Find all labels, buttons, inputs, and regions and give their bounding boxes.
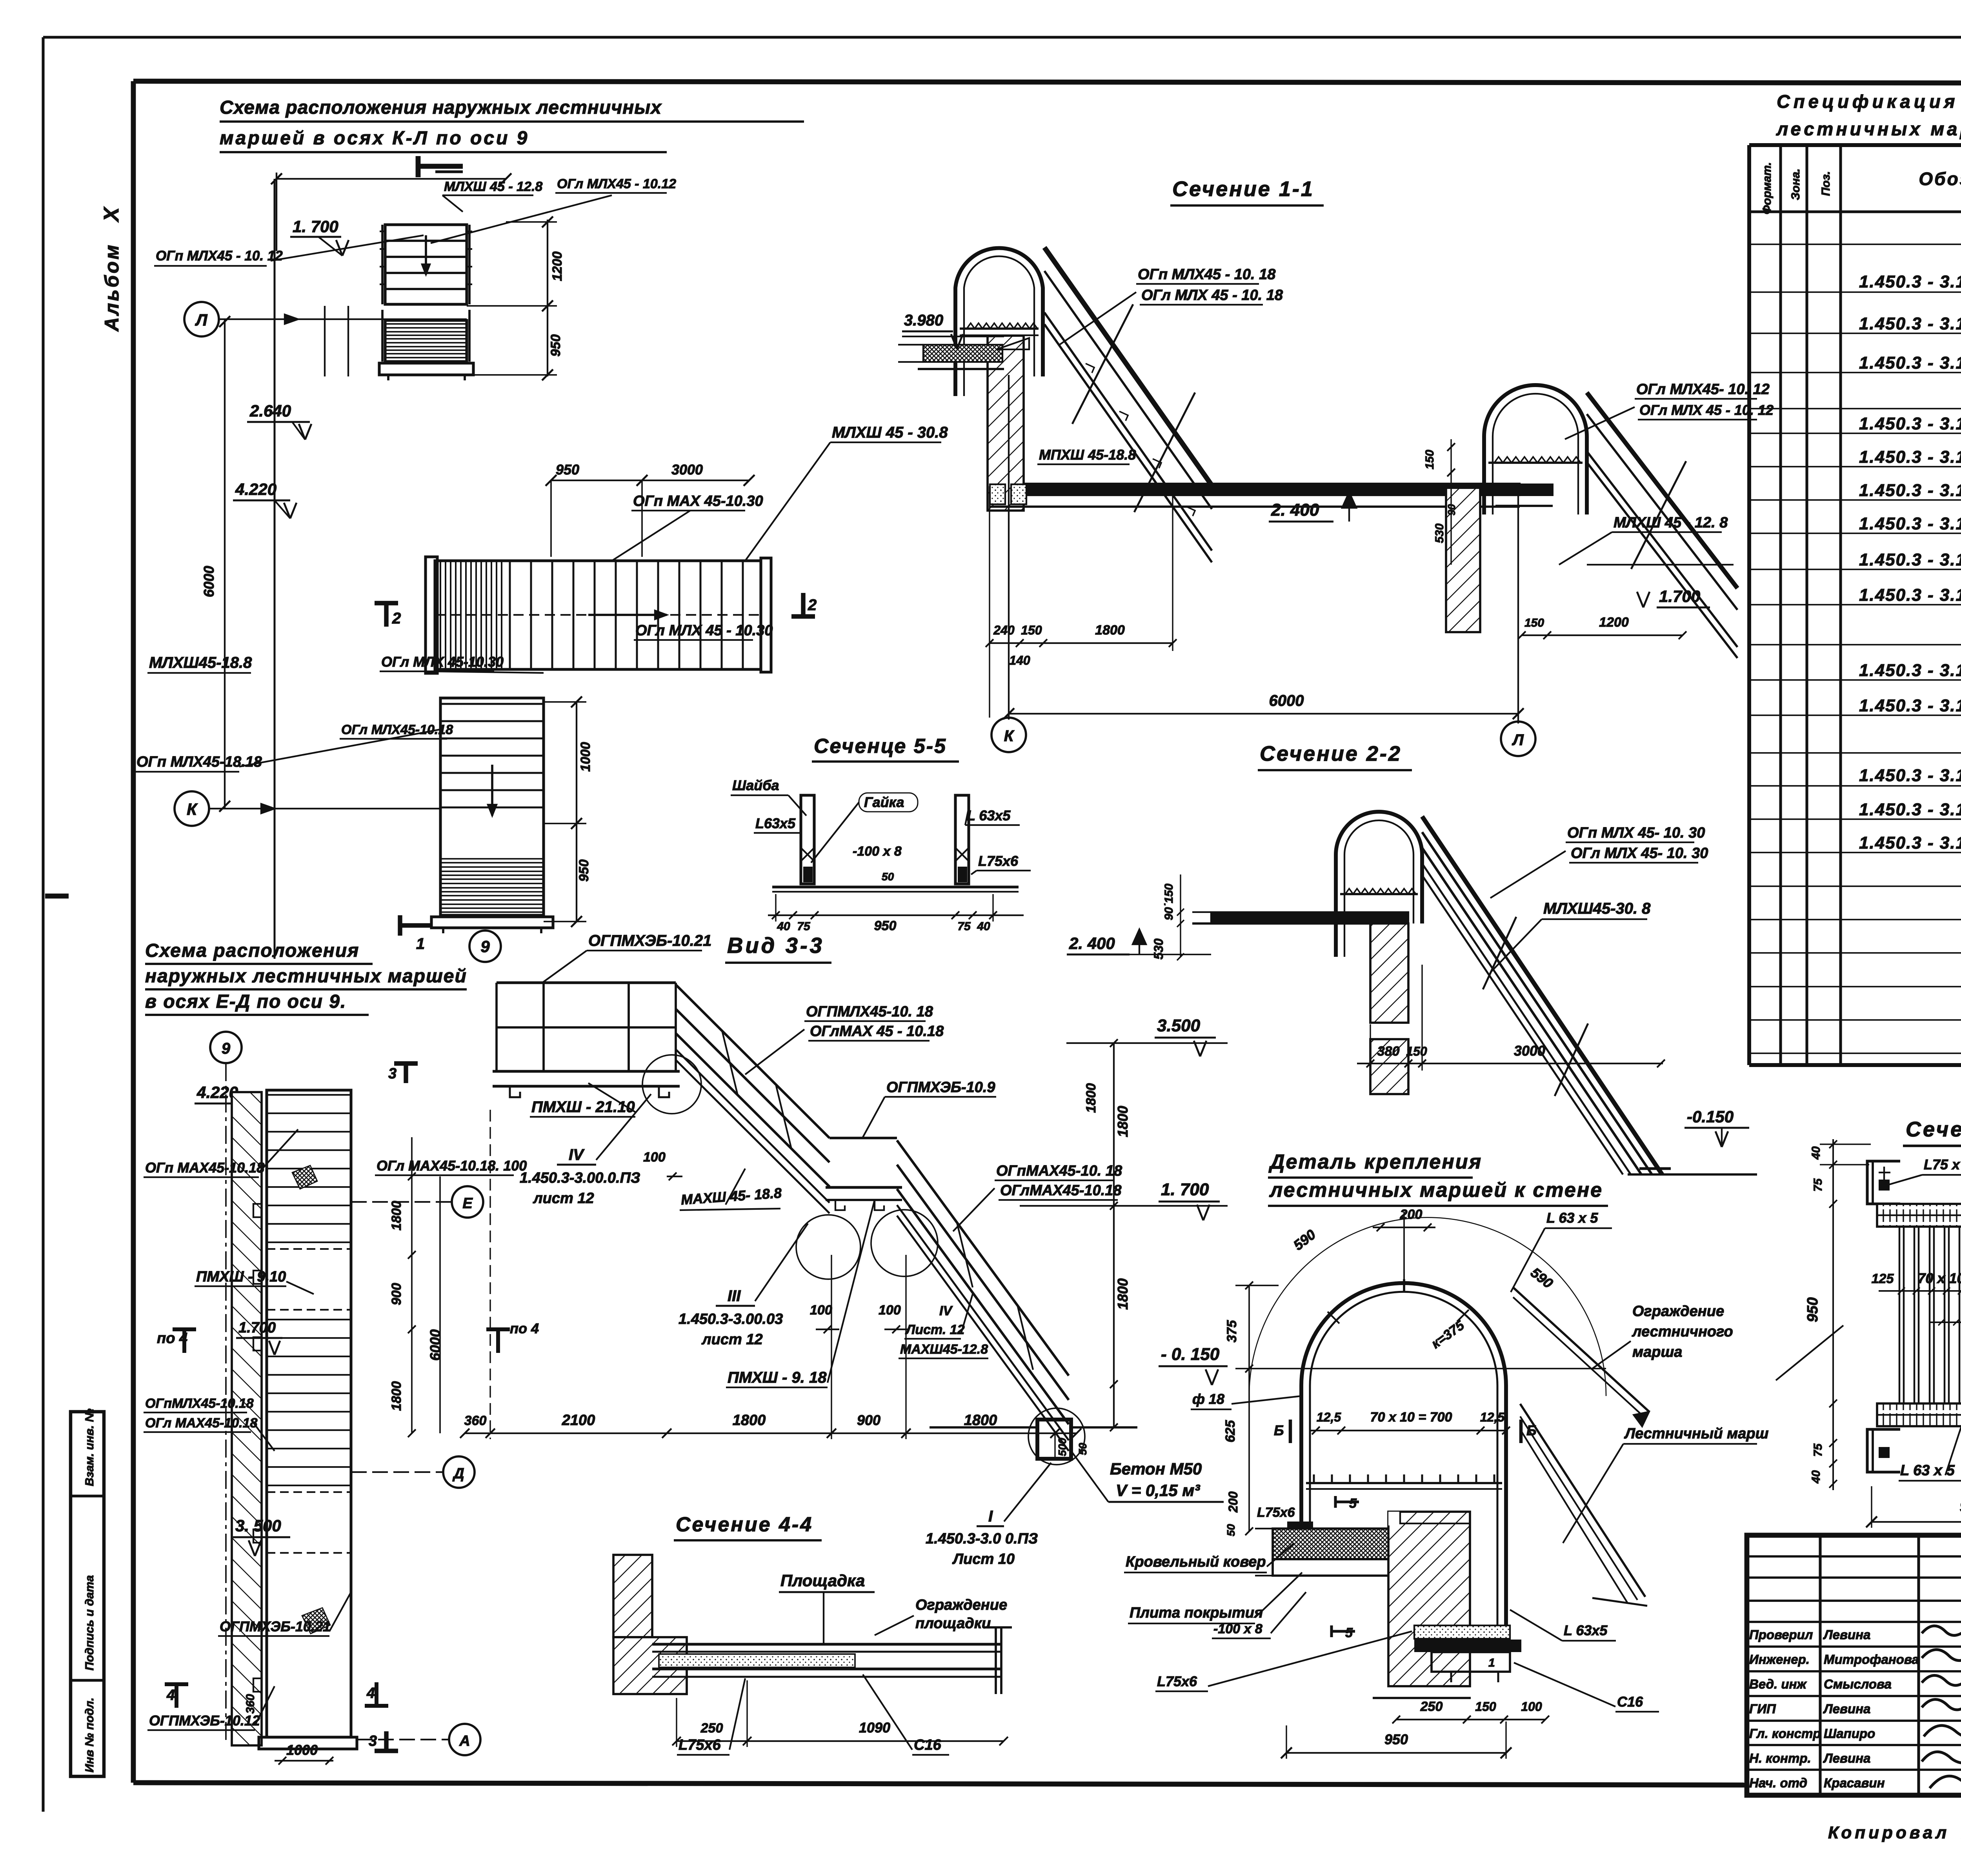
svg-text:по 4: по 4 bbox=[510, 1320, 539, 1336]
svg-text:Формат.: Формат. bbox=[1761, 162, 1774, 214]
svg-text:250: 250 bbox=[1420, 1699, 1443, 1714]
svg-text:ОГпМЛХ45-10.18: ОГпМЛХ45-10.18 bbox=[145, 1396, 254, 1411]
svg-text:Инв № подл.: Инв № подл. bbox=[83, 1698, 96, 1772]
svg-text:Копировал: Копировал bbox=[1828, 1823, 1950, 1842]
svg-text:МАХШ45-12.8: МАХШ45-12.8 bbox=[900, 1342, 988, 1357]
svg-text:1: 1 bbox=[416, 935, 425, 953]
svg-text:3. 500: 3. 500 bbox=[235, 1516, 281, 1535]
svg-text:Лист 10: Лист 10 bbox=[952, 1551, 1015, 1567]
svg-text:375: 375 bbox=[1224, 1320, 1239, 1343]
svg-text:Кровельный ковер: Кровельный ковер bbox=[1126, 1554, 1266, 1570]
svg-text:Плита покрытия: Плита покрытия bbox=[1130, 1605, 1263, 1621]
svg-text:75: 75 bbox=[1812, 1443, 1825, 1457]
svg-text:3: 3 bbox=[369, 1733, 377, 1749]
svg-text:200: 200 bbox=[1400, 1207, 1423, 1222]
svg-text:Альбом: Альбом bbox=[101, 243, 123, 332]
svg-text:4.220: 4.220 bbox=[235, 480, 277, 498]
svg-text:100: 100 bbox=[810, 1303, 832, 1318]
svg-text:Взам. инв. №: Взам. инв. № bbox=[83, 1409, 96, 1486]
svg-text:1.450.3 - 3.1: 1.450.3 - 3.1 bbox=[1859, 353, 1961, 373]
svg-text:2. 400: 2. 400 bbox=[1271, 500, 1319, 520]
svg-text:1.450.3 - 3.1: 1.450.3 - 3.1 bbox=[1859, 550, 1961, 569]
svg-text:IV: IV bbox=[939, 1303, 953, 1318]
svg-text:L 63х5: L 63х5 bbox=[1564, 1622, 1608, 1638]
svg-text:ПМХШ - 21.10: ПМХШ - 21.10 bbox=[531, 1098, 635, 1116]
svg-text:950: 950 bbox=[1805, 1297, 1821, 1322]
svg-text:Л: Л bbox=[195, 311, 208, 329]
svg-text:Нач. отд: Нач. отд bbox=[1749, 1776, 1807, 1790]
svg-text:50: 50 bbox=[1077, 1443, 1089, 1455]
svg-text:Проверил: Проверил bbox=[1749, 1627, 1813, 1642]
svg-text:1.450.3 - 3.1: 1.450.3 - 3.1 bbox=[1859, 696, 1961, 715]
svg-text:250: 250 bbox=[700, 1721, 723, 1736]
svg-text:Спецификация к схемам р: Спецификация к схемам расположения наруж… bbox=[1777, 91, 1961, 112]
svg-text:500: 500 bbox=[1056, 1438, 1068, 1456]
svg-text:Б: Б bbox=[1274, 1422, 1284, 1438]
svg-text:С16: С16 bbox=[914, 1737, 942, 1753]
svg-text:Левина: Левина bbox=[1823, 1751, 1870, 1765]
svg-text:1.450.3-3.0 0.ПЗ: 1.450.3-3.0 0.ПЗ bbox=[926, 1531, 1038, 1547]
svg-text:360: 360 bbox=[244, 1694, 257, 1714]
svg-text:3.980: 3.980 bbox=[904, 312, 943, 329]
svg-text:лист 12: лист 12 bbox=[533, 1190, 594, 1207]
svg-text:950: 950 bbox=[874, 918, 897, 933]
svg-text:ОГп МЛХ45 - 10. 18: ОГп МЛХ45 - 10. 18 bbox=[1138, 266, 1276, 283]
svg-text:V = 0,15 м³: V = 0,15 м³ bbox=[1116, 1481, 1200, 1500]
svg-text:1.450.3-3.00.03: 1.450.3-3.00.03 bbox=[679, 1311, 783, 1327]
svg-text:L75х6: L75х6 bbox=[1257, 1505, 1295, 1520]
svg-text:Поз.: Поз. bbox=[1819, 171, 1832, 196]
svg-text:ОГл МАХ45-10.18. 100: ОГл МАХ45-10.18. 100 bbox=[377, 1158, 527, 1174]
svg-text:Д: Д bbox=[452, 1465, 464, 1482]
svg-text:Ограждение: Ограждение bbox=[1632, 1303, 1724, 1320]
svg-text:К: К bbox=[1004, 727, 1015, 745]
svg-text:Схема расположения: Схема расположения bbox=[145, 940, 359, 961]
svg-text:1800: 1800 bbox=[1095, 623, 1125, 638]
svg-text:2: 2 bbox=[808, 596, 817, 614]
svg-text:12,5: 12,5 bbox=[1480, 1410, 1505, 1424]
svg-text:1.450.3 - 3.1: 1.450.3 - 3.1 bbox=[1859, 314, 1961, 333]
svg-text:Деталь крепления: Деталь крепления bbox=[1268, 1151, 1482, 1173]
svg-text:-100 х 8: -100 х 8 bbox=[1213, 1622, 1262, 1636]
svg-text:ОГп МАХ45-10.18: ОГп МАХ45-10.18 bbox=[145, 1160, 264, 1176]
svg-text:МЛХШ 45 - 30.8: МЛХШ 45 - 30.8 bbox=[832, 424, 948, 441]
svg-text:С16: С16 bbox=[1617, 1694, 1643, 1710]
svg-text:150: 150 bbox=[1524, 616, 1544, 629]
svg-text:Сечение 6-6: Сечение 6-6 bbox=[1906, 1118, 1961, 1141]
svg-text:1800: 1800 bbox=[964, 1412, 997, 1429]
svg-text:1800: 1800 bbox=[1115, 1106, 1131, 1137]
svg-text:Сечение 1-1: Сечение 1-1 bbox=[1172, 177, 1314, 201]
svg-text:1.450.3 - 3.1: 1.450.3 - 3.1 bbox=[1859, 766, 1961, 785]
svg-text:I: I bbox=[988, 1508, 993, 1525]
svg-text:75: 75 bbox=[957, 920, 971, 933]
svg-text:100: 100 bbox=[643, 1150, 666, 1165]
svg-text:Схема расположения наружных: Схема расположения наружных лестничных bbox=[220, 97, 662, 118]
svg-text:360: 360 bbox=[464, 1413, 487, 1428]
svg-text:6000: 6000 bbox=[201, 566, 217, 597]
svg-text:Инженер.: Инженер. bbox=[1749, 1652, 1810, 1667]
svg-text:70 х 10 = 700: 70 х 10 = 700 bbox=[1917, 1270, 1961, 1286]
svg-text:1.450.3 - 3.1: 1.450.3 - 3.1 bbox=[1859, 800, 1961, 819]
svg-text:МЛХШ45-18.8: МЛХШ45-18.8 bbox=[149, 654, 252, 671]
svg-text:ПМХШ - 9.10: ПМХШ - 9.10 bbox=[196, 1269, 286, 1285]
svg-text:L75х6: L75х6 bbox=[679, 1737, 721, 1753]
svg-text:900: 900 bbox=[389, 1283, 404, 1305]
svg-text:100: 100 bbox=[1521, 1700, 1542, 1714]
svg-text:МЛХШ 45 - 12.8: МЛХШ 45 - 12.8 bbox=[444, 179, 542, 194]
svg-text:- 0. 150: - 0. 150 bbox=[1161, 1345, 1220, 1364]
svg-text:ОГл МАХ45-10.18: ОГл МАХ45-10.18 bbox=[145, 1416, 257, 1431]
svg-text:-100 х 8: -100 х 8 bbox=[853, 844, 902, 859]
svg-text:1.450.3 - 3.1: 1.450.3 - 3.1 bbox=[1859, 585, 1961, 605]
svg-text:марша: марша bbox=[1632, 1344, 1682, 1360]
svg-text:900: 900 bbox=[857, 1412, 880, 1428]
svg-text:Зона.: Зона. bbox=[1789, 169, 1802, 200]
svg-text:Е: Е bbox=[462, 1195, 473, 1212]
svg-text:40: 40 bbox=[777, 920, 790, 933]
svg-text:МПХШ 45-18.8: МПХШ 45-18.8 bbox=[1039, 447, 1136, 463]
svg-text:4: 4 bbox=[366, 1685, 375, 1701]
svg-text:лестничного: лестничного bbox=[1632, 1323, 1733, 1340]
svg-text:Левина: Левина bbox=[1823, 1701, 1870, 1716]
svg-text:2100: 2100 bbox=[562, 1412, 595, 1429]
svg-text:3000: 3000 bbox=[1514, 1043, 1545, 1059]
svg-text:Шапиро: Шапиро bbox=[1824, 1726, 1875, 1741]
svg-text:ОГл МЛХ45 - 10.12: ОГл МЛХ45 - 10.12 bbox=[557, 176, 676, 191]
svg-text:200: 200 bbox=[1226, 1491, 1240, 1513]
svg-text:1.450.3-3.00.0.ПЗ: 1.450.3-3.00.0.ПЗ bbox=[520, 1170, 640, 1186]
svg-text:40: 40 bbox=[1810, 1470, 1823, 1484]
svg-text:3.500: 3.500 bbox=[1157, 1016, 1201, 1035]
svg-text:1.700: 1.700 bbox=[238, 1320, 276, 1336]
svg-text:ОГп МЛХ45-18.18: ОГп МЛХ45-18.18 bbox=[136, 754, 262, 770]
svg-text:3: 3 bbox=[388, 1065, 397, 1082]
svg-text:75: 75 bbox=[797, 920, 811, 933]
svg-text:ОГл МЛХ 45-10.30: ОГл МЛХ 45-10.30 bbox=[381, 654, 504, 670]
svg-text:К: К bbox=[187, 800, 198, 818]
svg-text:ОГп МЛХ45 - 10. 12: ОГп МЛХ45 - 10. 12 bbox=[156, 248, 283, 264]
svg-text:Сеченце 5-5: Сеченце 5-5 bbox=[814, 735, 947, 758]
svg-text:IV: IV bbox=[569, 1146, 585, 1163]
svg-text:ОГлМАХ45-10.18: ОГлМАХ45-10.18 bbox=[1000, 1182, 1122, 1199]
svg-text:Л: Л bbox=[1512, 731, 1524, 749]
svg-text:100: 100 bbox=[879, 1303, 901, 1318]
svg-text:1.450.3 - 3.1: 1.450.3 - 3.1 bbox=[1859, 447, 1961, 467]
svg-text:1.700: 1.700 bbox=[1659, 587, 1700, 605]
svg-text:ОГПМХЭБ-10.21: ОГПМХЭБ-10.21 bbox=[588, 932, 711, 949]
svg-text:Лист. 12: Лист. 12 bbox=[905, 1322, 965, 1337]
svg-text:III: III bbox=[728, 1287, 741, 1305]
svg-text:90˙150: 90˙150 bbox=[1162, 883, 1175, 920]
svg-text:ПМХШ - 9. 18: ПМХШ - 9. 18 bbox=[728, 1369, 827, 1386]
svg-text:Н. контр.: Н. контр. bbox=[1749, 1751, 1811, 1765]
svg-text:1.450.3 - 3.1: 1.450.3 - 3.1 bbox=[1859, 414, 1961, 433]
svg-text:1200: 1200 bbox=[550, 251, 565, 281]
svg-text:2.640: 2.640 bbox=[249, 402, 291, 420]
svg-text:ОГл МЛХ 45- 10. 30: ОГл МЛХ 45- 10. 30 bbox=[1571, 845, 1708, 862]
svg-text:1.450.3 - 3.1: 1.450.3 - 3.1 bbox=[1859, 661, 1961, 680]
svg-text:12,5: 12,5 bbox=[1317, 1410, 1341, 1424]
svg-text:950: 950 bbox=[556, 462, 579, 478]
svg-text:530: 530 bbox=[1151, 938, 1166, 960]
svg-text:3000: 3000 bbox=[671, 462, 703, 478]
svg-text:1. 700: 1. 700 bbox=[1161, 1180, 1209, 1199]
svg-text:Обозначение: Обозначение bbox=[1919, 169, 1961, 189]
svg-text:1.450.3 - 3.1: 1.450.3 - 3.1 bbox=[1859, 481, 1961, 500]
svg-text:лист 12: лист 12 bbox=[701, 1331, 763, 1348]
svg-text:L75х6: L75х6 bbox=[1157, 1673, 1197, 1689]
svg-text:Ограждение: Ограждение bbox=[915, 1597, 1007, 1613]
svg-text:ОГПМЛХ45-10. 18: ОГПМЛХ45-10. 18 bbox=[806, 1003, 933, 1020]
svg-text:1200: 1200 bbox=[1599, 615, 1629, 630]
svg-text:-0.150: -0.150 bbox=[1687, 1107, 1734, 1126]
svg-text:70 х 10 = 700: 70 х 10 = 700 bbox=[1370, 1410, 1452, 1425]
svg-text:1000: 1000 bbox=[286, 1742, 318, 1758]
svg-text:1.450.3 - 3.1: 1.450.3 - 3.1 bbox=[1859, 833, 1961, 853]
svg-text:380: 380 bbox=[1377, 1044, 1400, 1059]
svg-text:ОГПМХЭБ-10.12: ОГПМХЭБ-10.12 bbox=[149, 1712, 260, 1729]
svg-text:Бетон М50: Бетон М50 bbox=[1110, 1460, 1202, 1478]
svg-text:Вед. инж: Вед. инж bbox=[1749, 1677, 1807, 1691]
svg-text:1.450.3 - 3.1: 1.450.3 - 3.1 bbox=[1859, 514, 1961, 533]
svg-text:6000: 6000 bbox=[1269, 692, 1304, 709]
svg-text:2: 2 bbox=[392, 610, 401, 627]
svg-text:ф 18: ф 18 bbox=[1192, 1391, 1224, 1407]
svg-text:ОГл МЛХ45-10.18: ОГл МЛХ45-10.18 bbox=[341, 722, 453, 737]
svg-text:ОГп МЛХ 45- 10. 30: ОГп МЛХ 45- 10. 30 bbox=[1567, 825, 1705, 841]
svg-text:125: 125 bbox=[1872, 1271, 1894, 1286]
svg-text:А: А bbox=[459, 1733, 470, 1749]
svg-text:1800: 1800 bbox=[389, 1201, 404, 1231]
svg-text:950: 950 bbox=[548, 334, 563, 357]
svg-text:150: 150 bbox=[1406, 1044, 1427, 1058]
svg-text:Красавин: Красавин bbox=[1824, 1776, 1885, 1790]
svg-text:4: 4 bbox=[166, 1687, 175, 1703]
svg-text:ОГл МЛХ 45 - 10. 12: ОГл МЛХ 45 - 10. 12 bbox=[1639, 402, 1774, 418]
svg-text:ГИП: ГИП bbox=[1749, 1701, 1776, 1716]
svg-text:1000: 1000 bbox=[578, 742, 593, 772]
svg-text:Сечение 4-4: Сечение 4-4 bbox=[676, 1513, 813, 1536]
svg-text:L 63 х 5: L 63 х 5 bbox=[1546, 1210, 1598, 1226]
svg-text:5: 5 bbox=[1345, 1625, 1353, 1640]
svg-text:МЛХШ 45 - 12. 8: МЛХШ 45 - 12. 8 bbox=[1614, 514, 1728, 531]
svg-text:ОГпМАХ45-10. 18: ОГпМАХ45-10. 18 bbox=[996, 1163, 1122, 1179]
svg-text:Гл. констр: Гл. констр bbox=[1749, 1726, 1821, 1741]
svg-text:50: 50 bbox=[1225, 1524, 1237, 1536]
svg-text:1800: 1800 bbox=[1115, 1278, 1131, 1310]
svg-text:ОГл МЛХ45- 10. 12: ОГл МЛХ45- 10. 12 bbox=[1636, 381, 1770, 398]
svg-text:50: 50 bbox=[882, 871, 894, 883]
svg-text:Гайка: Гайка bbox=[864, 794, 904, 810]
svg-text:Левина: Левина bbox=[1823, 1627, 1870, 1642]
svg-text:5: 5 bbox=[1349, 1496, 1357, 1511]
svg-text:9: 9 bbox=[480, 937, 490, 956]
svg-text:1800: 1800 bbox=[1084, 1083, 1099, 1113]
svg-text:950: 950 bbox=[1384, 1731, 1408, 1747]
svg-text:1800: 1800 bbox=[733, 1412, 766, 1429]
svg-text:Вид 3-3: Вид 3-3 bbox=[727, 933, 824, 958]
svg-text:Лестничный марш: Лестничный марш bbox=[1624, 1425, 1769, 1442]
svg-text:X: X bbox=[100, 206, 123, 223]
svg-text:1800: 1800 bbox=[389, 1381, 404, 1411]
svg-text:наружных лестничных маршей: наружных лестничных маршей bbox=[145, 966, 467, 987]
svg-text:L75 х 6: L75 х 6 bbox=[1924, 1156, 1961, 1172]
svg-text:530: 530 bbox=[1433, 524, 1446, 543]
svg-text:9: 9 bbox=[222, 1040, 231, 1057]
svg-text:40: 40 bbox=[977, 920, 990, 933]
svg-text:маршей в осях К-Л по: маршей в осях К-Л по оси 9 bbox=[220, 128, 529, 149]
svg-text:ОГл МЛХ 45 - 10.30: ОГл МЛХ 45 - 10.30 bbox=[635, 622, 773, 639]
svg-text:150: 150 bbox=[1423, 450, 1436, 469]
svg-text:L75х6: L75х6 bbox=[978, 853, 1019, 869]
svg-text:ОГПМХЭБ-10.9: ОГПМХЭБ-10.9 bbox=[886, 1079, 995, 1096]
svg-text:1. 700: 1. 700 bbox=[293, 217, 338, 236]
svg-text:1.450.3 - 3.1: 1.450.3 - 3.1 bbox=[1859, 272, 1961, 291]
svg-text:ОГПМХЭБ-10.21: ОГПМХЭБ-10.21 bbox=[220, 1618, 331, 1634]
svg-text:ОГлМАХ 45 - 10.18: ОГлМАХ 45 - 10.18 bbox=[810, 1023, 944, 1040]
svg-text:625: 625 bbox=[1223, 1420, 1238, 1443]
svg-text:950: 950 bbox=[577, 860, 591, 882]
svg-text:лестничных маршей в о: лестничных маршей в осях К-Л и Е-Д по ос… bbox=[1776, 118, 1961, 139]
svg-text:150: 150 bbox=[1475, 1700, 1496, 1714]
svg-text:240: 240 bbox=[993, 623, 1015, 637]
svg-text:в осях Е-Д по оси 9.: в осях Е-Д по оси 9. bbox=[145, 991, 346, 1012]
svg-text:лестничных маршей к стене: лестничных маршей к стене bbox=[1269, 1179, 1603, 1202]
svg-text:Смыслова: Смыслова bbox=[1824, 1677, 1892, 1691]
svg-text:1090: 1090 bbox=[859, 1720, 890, 1736]
svg-text:L 63х5: L 63х5 bbox=[967, 807, 1011, 823]
svg-text:Митрофанова: Митрофанова bbox=[1824, 1652, 1919, 1667]
svg-text:ОГл МЛХ 45 - 10. 18: ОГл МЛХ 45 - 10. 18 bbox=[1141, 287, 1283, 304]
svg-text:ОГп МАХ 45-10.30: ОГп МАХ 45-10.30 bbox=[633, 493, 763, 509]
svg-text:Площадка: Площадка bbox=[780, 1571, 865, 1590]
svg-text:1: 1 bbox=[1488, 1656, 1495, 1669]
svg-text:140: 140 bbox=[1009, 653, 1030, 667]
svg-text:Сечение 2-2: Сечение 2-2 bbox=[1260, 742, 1402, 765]
svg-text:2. 400: 2. 400 bbox=[1069, 934, 1115, 953]
svg-text:150: 150 bbox=[1021, 623, 1042, 637]
svg-text:950: 950 bbox=[1960, 1498, 1961, 1515]
svg-text:75: 75 bbox=[1812, 1178, 1825, 1192]
svg-text:L63х5: L63х5 bbox=[755, 815, 796, 831]
svg-text:Подпись и дата: Подпись и дата bbox=[83, 1575, 96, 1671]
svg-text:площадки: площадки bbox=[915, 1615, 991, 1632]
svg-text:МЛХШ45-30. 8: МЛХШ45-30. 8 bbox=[1543, 900, 1651, 917]
svg-text:40: 40 bbox=[1810, 1146, 1823, 1160]
svg-text:Шайба: Шайба bbox=[732, 777, 779, 793]
